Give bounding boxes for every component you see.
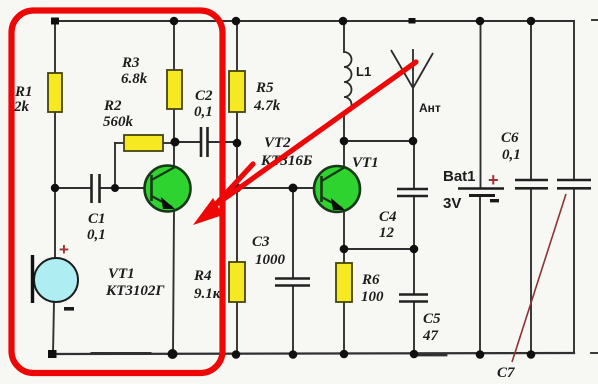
svg-text:0,1: 0,1 (502, 147, 521, 163)
svg-text:R5: R5 (255, 80, 274, 96)
node top rail mark (409, 18, 416, 24)
svg-text:0,1: 0,1 (194, 104, 213, 120)
wire C7 cap bottom lead (573, 188, 575, 353)
svg-text:+: + (488, 170, 499, 190)
svg-text:3V: 3V (443, 195, 461, 212)
wire R5 top lead (236, 21, 238, 71)
svg-text:12: 12 (379, 225, 395, 241)
wire R2 right lead (163, 142, 176, 144)
wire C2 right (208, 141, 237, 143)
svg-text:C1: C1 (88, 211, 106, 227)
node R1-C1-mic (51, 184, 59, 192)
wire bottom rail thick segment (92, 352, 150, 355)
wire battery top lead (480, 21, 482, 188)
node bottom rail VT1 emitter (168, 349, 178, 359)
svg-text:C6: C6 (501, 130, 519, 146)
node bottom rail mic (48, 350, 57, 358)
wire C4 bottom through node to C5 (413, 196, 415, 294)
node R5-C2 (233, 139, 242, 148)
resistor R4 (229, 262, 245, 302)
svg-text:47: 47 (422, 328, 439, 344)
svg-text:VT2: VT2 (264, 135, 291, 151)
svg-text:2k: 2k (13, 99, 30, 115)
wire R6 bottom lead (343, 302, 345, 354)
transistor VT2 (KT316) (314, 166, 360, 212)
wire VT2 base (237, 187, 321, 189)
red annotation arrow (193, 62, 416, 225)
svg-text:560k: 560k (103, 114, 134, 130)
svg-text:VT1: VT1 (108, 266, 135, 282)
wire R2 left lead horizontal (115, 142, 124, 144)
wire bottom-right dash (591, 352, 598, 354)
node top rail C6 (527, 17, 536, 26)
svg-text:9.1к: 9.1к (194, 286, 221, 302)
node bottom rail battery (476, 350, 485, 359)
capacitor C3 (275, 279, 310, 286)
svg-text:R6: R6 (361, 272, 380, 288)
wire C7 cap top lead (573, 21, 575, 180)
wire top-right dash (592, 19, 598, 21)
wire C2 left (175, 141, 200, 143)
svg-text:КТ3102Г: КТ3102Г (105, 283, 165, 299)
wire C4 top lead (413, 141, 415, 189)
wire R4 bottom lead (236, 302, 238, 355)
resistor R1 (48, 73, 62, 112)
label mic minus (64, 307, 74, 311)
wire C5 bottom lead (413, 302, 415, 354)
svg-text:C2: C2 (195, 88, 213, 104)
wire emitter node to C5 line (344, 248, 414, 250)
node L1 bottom (340, 137, 349, 146)
node top rail L1 (339, 17, 348, 26)
capacitor C4 (397, 189, 428, 196)
node top rail R3 (170, 17, 179, 26)
svg-text:L1: L1 (356, 64, 371, 79)
svg-text:R1: R1 (14, 84, 33, 100)
wire R2 left lead vertical (114, 143, 116, 188)
capacitor C2 (201, 127, 208, 157)
node top rail R1 (51, 18, 59, 25)
svg-text:Bat1: Bat1 (443, 168, 476, 185)
node top rail battery (476, 17, 485, 26)
node bottom rail C3 (289, 350, 298, 359)
wire VT2 emitter down to node (343, 210, 345, 263)
svg-text:6.8k: 6.8k (121, 71, 148, 87)
capacitor C1 (92, 174, 100, 203)
node VT2 base R4 (233, 184, 242, 193)
wire C3 top lead (292, 188, 294, 278)
svg-text:VT1: VT1 (352, 155, 379, 171)
wire VT1 emitter down (173, 210, 174, 354)
wire C1 right to VT1 base (100, 187, 151, 189)
wire R3 bottom to VT1 collector (173, 109, 175, 167)
svg-text:C4: C4 (379, 209, 397, 225)
red highlight box (12, 11, 223, 374)
wire R1 top lead (54, 21, 56, 73)
svg-text:+: + (59, 240, 69, 259)
svg-text:0,1: 0,1 (87, 227, 106, 243)
resistor R2 (124, 135, 163, 151)
node antenna bottom (409, 137, 418, 146)
wire L1 to antenna (344, 140, 413, 142)
svg-text:100: 100 (361, 289, 384, 305)
wire C6 top lead (530, 21, 532, 180)
wire R3 top lead (173, 21, 175, 70)
wire C6 bottom lead (530, 188, 532, 355)
wire top rail (55, 20, 574, 22)
wire antenna down lead (412, 88, 414, 141)
microphone BM1 (33, 255, 79, 303)
node VT1 base (111, 184, 119, 192)
node bottom rail C5 (410, 350, 419, 359)
resistor R5 (229, 71, 245, 112)
capacitor C7 (557, 180, 591, 188)
wire R1 bottom to mic (54, 112, 56, 258)
svg-text:4.7k: 4.7k (253, 98, 281, 114)
red annotation line to C7 (512, 194, 566, 362)
node bottom rail C6 (527, 350, 536, 359)
node bottom rail R4 (232, 350, 241, 359)
wire bottom rail (52, 353, 574, 354)
svg-text:C5: C5 (423, 311, 441, 327)
wire R5 bottom through node to R4 (236, 112, 238, 262)
capacitor C6 (515, 180, 548, 188)
wire L1 bottom to VT2 collector (343, 112, 345, 167)
wire L1 top lead (343, 21, 345, 52)
wire C1 left (55, 187, 91, 189)
node C3 top (289, 184, 298, 193)
resistor R3 (167, 70, 182, 109)
svg-text:Ант: Ант (419, 101, 441, 115)
node C4-C5 (410, 245, 419, 254)
capacitor C5 (399, 295, 428, 302)
resistor R6 (336, 263, 352, 302)
node R2-C2-collector (171, 138, 180, 147)
antenna (391, 49, 433, 88)
svg-text:R3: R3 (121, 55, 140, 71)
battery Bat1 (458, 189, 504, 196)
wire battery bottom lead (479, 197, 481, 356)
svg-text:C3: C3 (252, 234, 270, 250)
wire mic bottom lead (53, 302, 54, 354)
svg-text:R2: R2 (103, 98, 122, 114)
node VT2 emitter (340, 245, 349, 254)
wire C3 bottom lead (292, 286, 294, 355)
label battery minus (490, 199, 499, 202)
node bottom rail R6 (340, 350, 349, 359)
node top rail R5 (232, 17, 241, 26)
inductor L1 (344, 52, 352, 112)
transistor VT1 (KT3102) (145, 166, 191, 212)
svg-text:C7: C7 (497, 365, 515, 381)
svg-text:1000: 1000 (255, 252, 286, 268)
wire bottom rail thick segment 2 (416, 354, 446, 357)
svg-text:R4: R4 (193, 268, 212, 284)
